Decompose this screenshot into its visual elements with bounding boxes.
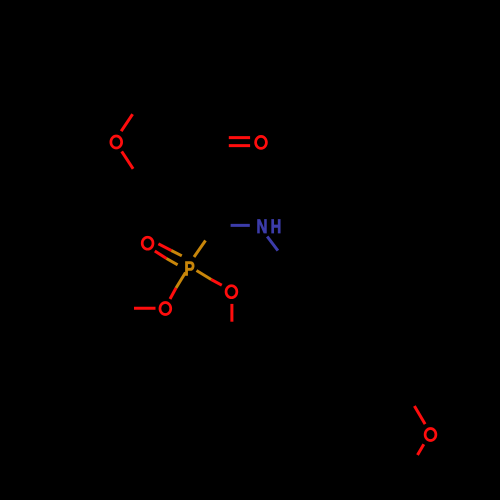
wire O6 to methyl (red half-bond) (418, 444, 424, 455)
wire O4 to methyl (red half-bond) (134, 307, 156, 310)
svg-text:P: P (184, 257, 194, 279)
wire C-alpha to P (gold half-bond) (194, 241, 206, 258)
wire N to benzylic carbon (blue half-bond) (267, 237, 278, 251)
wire C-alpha to N (blue half-bond) (231, 224, 250, 227)
wire P to ester oxygen O4 (gold half-bond) (176, 273, 186, 289)
phosphoryl double bond P=O lower line: red half near O3 (155, 251, 167, 259)
wire P to ester oxygen O5 (gold half-bond) (197, 271, 212, 280)
svg-text:H: H (271, 215, 282, 238)
wire P to ester oxygen O4 (red half-bond) (170, 288, 176, 299)
ketone carbonyl double bond C=O (red halves) (229, 136, 250, 139)
phosphoryl double bond P=O lower line: gold half near P (167, 259, 178, 265)
pyran ring ether oxygen O1 (111, 136, 122, 148)
methoxy oxygen O6 (425, 429, 436, 441)
phosphoryl oxygen O3 (142, 237, 153, 249)
ketone oxygen O2 (256, 136, 267, 148)
wire P to ester oxygen O5 (red half-bond) (211, 280, 222, 286)
wire O5 to methyl (red half-bond) (230, 304, 233, 322)
ester oxygen O4 (160, 303, 171, 315)
wire aryl carbon to methoxy oxygen O6 (red half-bond) (414, 406, 425, 424)
svg-text:N: N (257, 215, 268, 237)
phosphoryl double bond P=O upper line: red half near O3 (158, 244, 171, 251)
wire O1 to ring carbon (upper, red half-bond) (121, 114, 132, 131)
wire O1 to ring carbon (lower, red half-bond) (122, 151, 133, 168)
phosphoryl double bond P=O upper line: gold half near P (171, 251, 182, 256)
ester oxygen O5 (226, 286, 237, 298)
